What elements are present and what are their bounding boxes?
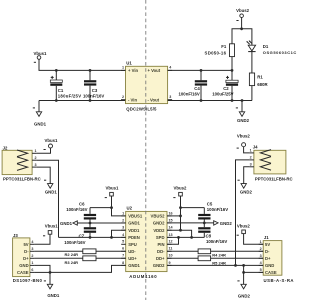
svg-text:12: 12 [169, 240, 173, 244]
wire to LED D1 [242, 29, 252, 45]
wire Vbus2 down to node [241, 18, 243, 29]
connector J1 USB-A-S-RA [259, 235, 294, 283]
svg-text:15: 15 [169, 218, 173, 222]
junction GND2 node [242, 264, 245, 267]
svg-text:C4: C4 [194, 86, 200, 91]
svg-text:GND1: GND1 [128, 221, 140, 226]
svg-text:PPTC031LFBN-RC: PPTC031LFBN-RC [255, 176, 293, 181]
svg-text:8: 8 [122, 261, 124, 265]
resistor R2 24R [65, 249, 97, 257]
J2 contact chevrons [17, 150, 28, 157]
svg-text:USB-A-S-RA: USB-A-S-RA [264, 278, 295, 283]
svg-text:PIN: PIN [158, 242, 165, 247]
svg-text:UD+: UD+ [128, 256, 137, 261]
U2 pin 5 SPU [121, 243, 126, 245]
U1 pin 2 -Vin [121, 99, 126, 101]
svg-text:C2: C2 [223, 86, 229, 91]
svg-text:GND1: GND1 [45, 189, 58, 194]
U2 pin 15 GND2 [167, 222, 172, 224]
svg-text:GND2: GND2 [153, 263, 165, 268]
svg-text:GND: GND [19, 263, 28, 268]
svg-text:J1: J1 [264, 235, 269, 240]
J1 pin 4 GND [259, 264, 264, 266]
supply terminal Vbus2 (at U2) [173, 185, 187, 197]
U2 pin 6 UD- [121, 250, 126, 252]
svg-text:+ Vout: + Vout [148, 68, 161, 73]
U2 pin 7 UD+ [121, 257, 126, 259]
svg-text:2: 2 [31, 254, 33, 258]
junction C1 bottom [55, 99, 58, 102]
J1 pin 1 5V [259, 243, 264, 245]
U2 pin 13 SPD [167, 236, 172, 238]
U2 pin 3 VDD1 [121, 229, 126, 231]
svg-text:6: 6 [122, 247, 124, 251]
svg-text:CASE: CASE [265, 270, 277, 275]
junction pin16 [179, 215, 182, 218]
wire GND1 rail (top left) [39, 100, 126, 102]
wire D- line [34, 250, 125, 252]
junction VBUS1/C6 [110, 206, 113, 209]
svg-text:2: 2 [122, 218, 124, 222]
junction C4 top [200, 69, 203, 72]
svg-text:Vbus2: Vbus2 [237, 224, 251, 229]
svg-text:Vbus1: Vbus1 [106, 185, 120, 190]
svg-text:100nF/16V: 100nF/16V [66, 207, 87, 212]
capacitor C7 100nF/16V [64, 223, 96, 245]
svg-text:GND1: GND1 [128, 263, 140, 268]
wire F1 to +Vout rail [231, 57, 233, 71]
wire VBUS2 pin16 [167, 215, 181, 217]
svg-text:PDEN: PDEN [128, 235, 140, 240]
wire J1 CASE [244, 271, 264, 273]
svg-text:GND2: GND2 [238, 293, 251, 298]
svg-text:D-: D- [265, 249, 270, 254]
wire R1 to GND2 rail [251, 86, 253, 101]
wire DD- line [167, 250, 263, 252]
svg-text:- Vin: - Vin [128, 97, 137, 102]
wire to C6 [90, 207, 112, 209]
svg-text:100nF/16V: 100nF/16V [83, 93, 104, 98]
supply terminal Vbus1 (at U2) [105, 185, 119, 197]
svg-text:Vbus1: Vbus1 [34, 51, 48, 56]
svg-text:3: 3 [35, 163, 37, 167]
ground GND2 (at J1) [237, 265, 250, 298]
svg-text:CASE: CASE [17, 270, 29, 275]
svg-text:R1: R1 [257, 75, 263, 80]
svg-text:Vbus2: Vbus2 [236, 8, 250, 13]
wire J4 pin1 to Vbus2 [244, 147, 250, 153]
wire J4 pin2 to GND2 (long, right edge) [236, 160, 250, 266]
J4 pin 2 [249, 159, 254, 161]
svg-text:VBUS1: VBUS1 [128, 214, 143, 219]
svg-text:3: 3 [260, 254, 262, 258]
junction C3 bottom [89, 99, 92, 102]
wire J3 CASE [34, 271, 50, 273]
svg-text:100uF/25V: 100uF/25V [212, 92, 233, 97]
junction CASE node [242, 271, 245, 274]
wire U2 pin8 GND1 return [50, 265, 126, 272]
isolation barrier dashed line [145, 0, 147, 300]
svg-text:3: 3 [250, 163, 252, 167]
svg-text:SD050-16: SD050-16 [205, 50, 227, 55]
ground GND2 (right of C5) [214, 221, 233, 226]
svg-text:100nF/16V: 100nF/16V [64, 240, 85, 245]
J2 pin 1 [32, 152, 37, 154]
J2 pin 2 [32, 159, 37, 161]
svg-text:3: 3 [122, 226, 124, 230]
junction C1 top [55, 69, 58, 72]
svg-text:QDC2WSIL5/5: QDC2WSIL5/5 [126, 106, 157, 111]
wire to fuse F1 [232, 29, 242, 44]
wire DD+ line [167, 257, 263, 259]
junction GND1 node [49, 271, 52, 274]
U2 pin 16 VBUS2 [167, 215, 172, 217]
wire D1 to R1 [251, 52, 253, 73]
J3 pin 3 D- [30, 250, 35, 252]
LED D1 OSG50603C1C [246, 40, 297, 55]
junction C2 bottom [231, 99, 234, 102]
wire J4 pin3 to GND2 [244, 167, 250, 184]
svg-text:2: 2 [35, 156, 37, 160]
svg-text:5: 5 [122, 240, 124, 244]
svg-text:+ Vin: + Vin [128, 68, 138, 73]
junction PIN riser [177, 236, 180, 239]
wire VDD2 pin14 to riser [167, 230, 192, 237]
ground GND1 (at J3) [44, 272, 60, 298]
junction C5/C8 on GND2 rail [203, 222, 206, 225]
svg-text:GND2: GND2 [240, 189, 253, 194]
junction C7 bottom [89, 236, 92, 239]
connector J4 PPTC031LFBN-RC [249, 144, 292, 181]
wire +Vout rail [168, 69, 232, 71]
svg-text:9: 9 [169, 261, 171, 265]
wire GND2 rail (top right) [168, 100, 252, 102]
svg-text:7: 7 [122, 254, 124, 258]
svg-text:GND1: GND1 [47, 293, 60, 298]
svg-text:1: 1 [260, 240, 262, 244]
wire riser to VDD1 pin [112, 230, 126, 237]
svg-text:DD+: DD+ [156, 256, 165, 261]
svg-text:GND2: GND2 [153, 221, 165, 226]
ground GND1 (top left) [33, 101, 47, 127]
capacitor C5 100nF/16V [198, 202, 228, 223]
svg-text:180uF/25V: 180uF/25V [58, 93, 82, 98]
wire Vbus1 to U2 VBUS1 [112, 196, 126, 216]
wire J3 GND bend [34, 265, 50, 272]
U2 pin 12 PIN [167, 243, 172, 245]
svg-text:11: 11 [169, 247, 173, 251]
capacitor C3 100nF/16V [83, 70, 104, 100]
svg-text:J2: J2 [3, 145, 8, 150]
connector J2 PPTC031LFBN-RC [2, 145, 41, 181]
svg-text:2: 2 [260, 247, 262, 251]
capacitor C6 100nF/16V [66, 202, 96, 223]
svg-text:6: 6 [31, 268, 33, 272]
junction VDD2/Vbus2 [179, 229, 182, 232]
supply terminal Vbus1 (at J3) [43, 224, 58, 236]
U2 pin 2 GND1 [121, 222, 126, 224]
svg-text:100nF/16V: 100nF/16V [207, 207, 228, 212]
J2 pin 3 [32, 166, 37, 168]
U2 pin 8 GND1 [121, 264, 126, 266]
connector J3 DS1097-BN0 (USB-B) [13, 233, 43, 283]
J3 pin 4 5V [30, 243, 35, 245]
U1 pin 3 -Vout [168, 99, 173, 101]
capacitor C4 100nF/16V [179, 70, 208, 100]
USB isolator U2 ADUM4160 [121, 206, 173, 279]
supply terminal Vbus1 (at J2) [44, 138, 59, 150]
junction Vbus2 split [240, 27, 243, 30]
svg-text:C5: C5 [207, 202, 213, 207]
svg-text:Vbus2: Vbus2 [237, 134, 251, 139]
DC/DC converter U1 QDC2WSIL5/5 [121, 61, 172, 112]
svg-text:J3: J3 [13, 233, 18, 238]
capacitor C8 100nF/16V [198, 223, 227, 244]
svg-text:1: 1 [250, 149, 252, 153]
svg-text:VDD2: VDD2 [153, 228, 165, 233]
svg-text:3: 3 [31, 247, 33, 251]
J4 pin 1 [249, 152, 254, 154]
svg-text:100nF/16V: 100nF/16V [179, 92, 200, 97]
junction F1/C2 node [231, 69, 234, 72]
svg-text:680R: 680R [257, 82, 268, 87]
svg-text:VDD1: VDD1 [128, 228, 140, 233]
svg-text:U1: U1 [126, 61, 132, 66]
svg-text:D+: D+ [23, 256, 29, 261]
svg-text:Vbus2: Vbus2 [174, 185, 188, 190]
junction C4 bottom [200, 99, 203, 102]
svg-text:F1: F1 [221, 44, 227, 49]
svg-text:SPU: SPU [128, 242, 137, 247]
ground GND2 (top right) [236, 101, 250, 124]
junction J4 pin2 vertical meets GND row [234, 264, 237, 267]
supply terminal Vbus2 (top right) [236, 8, 250, 21]
svg-text:5V: 5V [23, 242, 28, 247]
svg-text:GND1: GND1 [34, 121, 47, 126]
wire J1 5V to Vbus2 [244, 234, 264, 245]
svg-text:Vbus1: Vbus1 [45, 224, 59, 229]
svg-text:3: 3 [169, 95, 171, 99]
junction riser on pin13 rail [190, 236, 193, 239]
J3 pin 6 CASE [30, 271, 35, 273]
svg-text:GND2: GND2 [220, 221, 233, 226]
U2 pin 10 DD+ [167, 257, 172, 259]
wire J2 pin3 to GND1 [37, 167, 51, 184]
U1 pin 1 +Vin [121, 69, 126, 71]
junction GND2 drop [241, 99, 244, 102]
fuse F1 SD050-16 [205, 44, 235, 57]
svg-text:C6: C6 [79, 202, 85, 207]
svg-text:5: 5 [260, 268, 262, 272]
ground GND1 (at J2) [44, 180, 57, 194]
svg-text:10: 10 [169, 254, 173, 258]
svg-text:DD-: DD- [157, 249, 165, 254]
capacitor C2 100uF/25V (polarized) [212, 70, 238, 100]
svg-text:PPTC031LFBN-RC: PPTC031LFBN-RC [3, 176, 41, 181]
wire GND2 rail from U2 pin15 [167, 222, 214, 224]
supply terminal Vbus1 (top left) [34, 51, 48, 62]
svg-text:ADUM4160: ADUM4160 [129, 274, 157, 279]
wire J2 pin1 to Vbus1 [37, 148, 51, 153]
svg-text:UD-: UD- [128, 249, 136, 254]
wire J2 pin2 to VDD1 rail (long) [37, 160, 59, 237]
svg-text:1: 1 [122, 211, 124, 215]
svg-text:SPD: SPD [156, 235, 165, 240]
capacitor C1 180uF/25V (polarized) [50, 70, 81, 100]
U1 pin 4 +Vout [168, 69, 173, 71]
junction C5 branch [179, 206, 182, 209]
resistor R4 24R [198, 249, 226, 258]
junction C6/C7 on GND1 rail [89, 222, 92, 225]
svg-text:GND2: GND2 [237, 118, 250, 123]
svg-text:GND: GND [265, 263, 274, 268]
U2 pin 11 DD- [167, 250, 172, 252]
svg-text:2: 2 [122, 95, 124, 99]
svg-text:GND1: GND1 [60, 221, 73, 226]
resistor R3 24R [65, 256, 97, 265]
wire PIN pin12 riser [167, 237, 179, 244]
svg-text:DS1097-BN0: DS1097-BN0 [13, 278, 43, 283]
J4 contact chevrons [260, 150, 271, 157]
svg-text:D-: D- [24, 249, 29, 254]
supply terminal Vbus2 (at J1) [237, 224, 251, 236]
U2 pin 9 GND2 [167, 264, 172, 266]
J1 pin 3 D+ [259, 257, 264, 259]
resistor R1 680R [249, 73, 268, 87]
U2 pin 1 VBUS1 [121, 215, 126, 217]
U2 pin 14 VDD2 [167, 229, 172, 231]
svg-text:Vbus1: Vbus1 [45, 138, 59, 143]
J1 pin 5 CASE [259, 271, 264, 273]
svg-text:R5 24R: R5 24R [212, 261, 226, 266]
svg-text:R2 24R: R2 24R [65, 252, 79, 257]
svg-text:R3 24R: R3 24R [65, 260, 79, 265]
svg-text:- Vout: - Vout [148, 97, 160, 102]
svg-text:R4 24R: R4 24R [212, 252, 226, 257]
wire J3 5V to Vbus1 [34, 234, 50, 244]
wire VDD1/PDEN rail [59, 236, 126, 238]
svg-text:5V: 5V [265, 242, 270, 247]
resistor R5 24R [198, 256, 226, 266]
junction C3 top [89, 69, 92, 72]
svg-text:2: 2 [250, 156, 252, 160]
U2 pin 4 PDEN [121, 236, 126, 238]
svg-text:1: 1 [122, 66, 124, 70]
svg-text:1: 1 [31, 261, 33, 265]
svg-text:VBUS2: VBUS2 [151, 214, 166, 219]
wire Vbus2 vertical to VDD2 [180, 196, 182, 230]
svg-text:J4: J4 [253, 144, 258, 149]
svg-text:16: 16 [169, 211, 173, 215]
wire GND1 rail to U2 GND1 [77, 222, 125, 224]
svg-text:OSG50603C1C: OSG50603C1C [263, 50, 297, 55]
svg-text:1: 1 [35, 149, 37, 153]
svg-text:100nF/16V: 100nF/16V [206, 239, 227, 244]
wire D+ line [34, 257, 125, 259]
svg-text:C7: C7 [79, 234, 85, 239]
svg-text:13: 13 [169, 233, 173, 237]
wire to C5 [181, 207, 205, 209]
ground GND1 (left of C6) [60, 221, 77, 226]
wire Vbus1 to U1 pin1 rail [39, 59, 126, 70]
svg-text:D+: D+ [265, 256, 271, 261]
supply terminal Vbus2 (at J4) [237, 134, 251, 149]
J1 pin 2 D- [259, 250, 264, 252]
svg-text:U2: U2 [127, 206, 133, 211]
svg-text:D1: D1 [263, 44, 269, 49]
wire SPD pin13 rail to C8 [167, 236, 204, 238]
J3 pin 1 GND [30, 264, 35, 266]
J4 pin 3 [249, 166, 254, 168]
ground GND2 (at J4) [238, 180, 253, 194]
J3 pin 2 D+ [30, 257, 35, 259]
wire U2 pin9 GND2 return [167, 264, 263, 266]
junction VDD1 riser [110, 236, 113, 239]
